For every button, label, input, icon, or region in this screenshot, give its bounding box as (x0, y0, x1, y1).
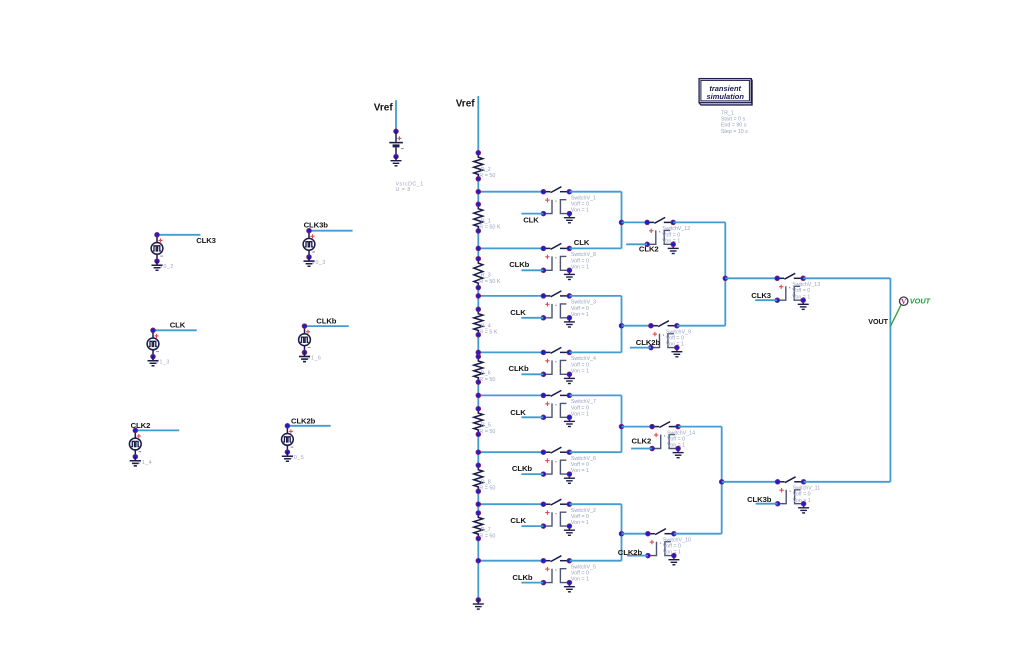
wire stage-2 CLK2b right (677, 325, 725, 327)
svg-text:Start = 0 s: Start = 0 s (721, 117, 746, 123)
svg-text:VOUT: VOUT (868, 317, 888, 326)
ground at V1_6 (299, 352, 310, 361)
wire ladder segment 1 (477, 179, 479, 205)
svg-text:R = 5 K: R = 5 K (479, 330, 498, 336)
svg-text:R = 50: R = 50 (479, 533, 495, 539)
svg-text:SwitchV_7: SwitchV_7 (571, 399, 596, 405)
svg-text:CLKb: CLKb (509, 260, 529, 269)
wire branch 6 left (478, 451, 543, 453)
wire ladder top (477, 96, 479, 153)
svg-text:CLK3: CLK3 (196, 236, 216, 245)
wire Vref source top (395, 100, 397, 131)
svg-text:SwitchV_5: SwitchV_5 (571, 565, 596, 571)
svg-text:R_8: R_8 (481, 479, 491, 485)
svg-text:Von = 1: Von = 1 (571, 208, 589, 214)
voltage probe VOUT (900, 297, 908, 306)
wire branch 1 left (478, 191, 543, 193)
svg-text:CLK: CLK (523, 215, 539, 224)
svg-text:Von = 1: Von = 1 (571, 312, 589, 318)
node stage-1 bus 2 tap (619, 323, 624, 328)
switch SwitchV_8 (CLKb) (541, 243, 596, 279)
pulse source V1_3 (CLK) (147, 328, 170, 366)
switch SwitchV_5 (CLKb) (541, 556, 596, 592)
wire CLKb control 2 (521, 269, 543, 271)
wire CLK2 control (631, 448, 652, 450)
pulse source V1_4 (CLK2) (129, 428, 152, 466)
wire branch 1 right (569, 191, 621, 193)
node stage-2 bus A tap (723, 276, 728, 281)
ground at V0_3 (304, 257, 315, 266)
svg-text:Voff = 0: Voff = 0 (662, 232, 680, 238)
wire CLK2b control (630, 347, 651, 349)
svg-text:Von = 1: Von = 1 (571, 577, 589, 583)
svg-text:Voff = 0: Voff = 0 (571, 514, 589, 520)
wire branch 8 right (569, 560, 621, 562)
svg-text:Voff = 0: Voff = 0 (667, 437, 685, 443)
wire branch 3 right (569, 295, 621, 297)
svg-text:CLK: CLK (574, 238, 590, 247)
svg-text:V: V (901, 298, 906, 306)
svg-text:Voff = 0: Voff = 0 (571, 405, 589, 411)
svg-text:SwitchV_14: SwitchV_14 (667, 430, 695, 436)
svg-text:CLK2b: CLK2b (636, 338, 661, 347)
wire stage-1 bus 4 (621, 504, 623, 561)
wire stage-2 CLK2 left (622, 221, 648, 223)
svg-text:CLK2: CLK2 (639, 245, 659, 254)
switch SwitchV_11 (CLK3b) (775, 477, 820, 513)
svg-text:R = 50 K: R = 50 K (479, 279, 501, 285)
svg-text:R_1: R_1 (481, 218, 491, 224)
svg-text:SwitchV_12: SwitchV_12 (662, 226, 690, 232)
wire stage-2 bus A (724, 222, 726, 325)
wire stage-1 bus 2 (621, 296, 623, 353)
ground at ladder bottom (473, 598, 484, 609)
svg-text:Voff = 0: Voff = 0 (793, 492, 811, 498)
svg-text:Vref: Vref (374, 103, 394, 114)
wire stage-1 bus 3 (621, 395, 623, 452)
svg-text:Voff = 0: Voff = 0 (571, 258, 589, 264)
svg-text:CLK: CLK (170, 320, 186, 329)
svg-text:R_6: R_6 (481, 371, 491, 377)
svg-text:SwitchV_10: SwitchV_10 (663, 538, 691, 544)
wire branch 4 right (569, 351, 621, 353)
svg-text:Voff = 0: Voff = 0 (571, 462, 589, 468)
svg-text:Voff = 0: Voff = 0 (663, 544, 681, 550)
svg-text:Vref: Vref (456, 98, 476, 109)
svg-text:SwitchV_3: SwitchV_3 (571, 300, 596, 306)
wire stage-2 bus B (721, 427, 723, 534)
pulse source V0_2 (CLK3) (151, 233, 174, 271)
wire ladder segment 8 (477, 539, 479, 600)
node branch 2 junction (476, 246, 481, 251)
switch SwitchV_6 (CLKb) (541, 447, 596, 483)
ground at V1_3 (148, 357, 159, 366)
wire CLK3 control (755, 299, 777, 301)
node stage-1 bus 4 tap (619, 531, 624, 536)
switch SwitchV_12 (CLK2) (645, 217, 690, 253)
node branch 3 junction (476, 294, 481, 299)
wire stage-2 CLK2 right (678, 426, 722, 428)
wire branch 8 left (478, 560, 543, 562)
resistor R_4 (R = 5 K) (474, 307, 498, 337)
resistor R_5 (R = 50) (474, 406, 496, 436)
svg-text:R_5: R_5 (481, 423, 491, 429)
svg-text:CLK2: CLK2 (632, 436, 652, 445)
svg-text:Step = 10 s: Step = 10 s (721, 129, 748, 135)
switch SwitchV_10 (CLK2b) (646, 529, 691, 565)
svg-text:CLK: CLK (510, 308, 526, 317)
wire CLK2b control (627, 555, 648, 557)
svg-text:R = 50: R = 50 (479, 429, 495, 435)
wire stage-2 CLK2b left (622, 533, 648, 535)
node branch 7 junction (476, 502, 481, 507)
switch SwitchV_2 (CLK) (541, 499, 596, 535)
svg-text:Voff = 0: Voff = 0 (792, 288, 810, 294)
svg-text:Von = 1: Von = 1 (571, 468, 589, 474)
svg-text:Von = 1: Von = 1 (571, 368, 589, 374)
svg-text:Voff = 0: Voff = 0 (666, 336, 684, 342)
svg-text:CLK3b: CLK3b (304, 220, 329, 229)
transient simulation parameters (721, 111, 748, 135)
wire branch 5 right (569, 394, 621, 396)
svg-text:R = 50 K: R = 50 K (479, 225, 501, 231)
wire CLK3b control (756, 503, 778, 505)
transient simulation TR_1 (699, 79, 752, 106)
switch SwitchV_3 (CLK) (541, 291, 596, 327)
wire CLK control 3 (521, 317, 543, 319)
svg-text:TR_1: TR_1 (721, 111, 734, 117)
node branch 1 junction (476, 189, 481, 194)
svg-text:CLKb: CLKb (316, 317, 336, 326)
wire CLKb control 4 (521, 373, 543, 375)
svg-text:SwitchV_6: SwitchV_6 (571, 456, 596, 462)
wire CLK2b source output (287, 425, 330, 427)
svg-text:VOUT: VOUT (910, 297, 931, 306)
svg-text:R = 50: R = 50 (479, 486, 495, 492)
node stage-2 bus B tap (719, 480, 724, 485)
svg-text:SwitchV_2: SwitchV_2 (571, 508, 596, 514)
wire stage-3 CLK3 left (725, 277, 777, 279)
svg-text:SwitchV_4: SwitchV_4 (571, 356, 596, 362)
node branch 8 junction (476, 558, 481, 563)
wire stage-3 CLK3b right (804, 481, 891, 483)
wire branch 3 left (478, 295, 543, 297)
node Vref source + (394, 129, 399, 134)
svg-text:simulation: simulation (706, 92, 744, 101)
switch SwitchV_14 (CLK2) (650, 422, 695, 458)
svg-text:SwitchV_1: SwitchV_1 (571, 196, 596, 202)
svg-text:R_7: R_7 (481, 527, 491, 533)
switch SwitchV_7 (CLK) (541, 390, 596, 426)
node branch 4 junction (476, 350, 481, 355)
wire stage-3 CLK3 right (803, 277, 890, 279)
svg-text:CLK: CLK (510, 408, 526, 417)
node stage-1 bus 3 tap (619, 424, 624, 429)
wire branch 7 left (478, 503, 543, 505)
resistor R_7 (R = 50) (474, 511, 496, 541)
svg-text:Voff = 0: Voff = 0 (571, 202, 589, 208)
resistor R_1 (R = 50 K) (474, 202, 501, 233)
svg-text:SwitchV_9: SwitchV_9 (666, 330, 691, 336)
wire CLKb control 6 (521, 473, 543, 475)
wire CLK2 control (626, 243, 647, 245)
svg-text:CLKb: CLKb (509, 364, 529, 373)
svg-text:SwitchV_11: SwitchV_11 (793, 486, 821, 492)
node branch 6 junction (476, 450, 481, 455)
svg-text:CLK2b: CLK2b (618, 548, 643, 557)
svg-text:CLK3: CLK3 (751, 291, 771, 300)
wire stage-2 CLK2 right (673, 221, 725, 223)
wire branch 5 left (478, 394, 543, 396)
svg-text:Voff = 0: Voff = 0 (571, 362, 589, 368)
wire ladder segment 2 (477, 231, 479, 259)
voltage source VsrcDC_1 (389, 131, 423, 193)
wire stage-1 bus 1 (621, 192, 623, 249)
svg-text:CLK: CLK (510, 516, 526, 525)
svg-text:CLK3b: CLK3b (747, 495, 772, 504)
svg-text:R_2: R_2 (481, 167, 491, 173)
svg-text:R_4: R_4 (481, 323, 491, 329)
wire stage-2 CLK2b left (622, 325, 651, 327)
wire ladder segment 6 (477, 434, 479, 465)
svg-text:CLKb: CLKb (512, 573, 532, 582)
svg-text:CLKb: CLKb (512, 464, 532, 473)
wire CLK control 5 (521, 416, 543, 418)
svg-text:Von = 1: Von = 1 (571, 264, 589, 270)
svg-text:SwitchV_13: SwitchV_13 (792, 282, 820, 288)
wire ladder segment 4 (477, 335, 479, 357)
svg-text:R_3: R_3 (481, 273, 491, 279)
ground at V0_2 (152, 261, 163, 270)
pulse source V0_5 (CLK2b) (282, 424, 305, 462)
ground at V1_4 (130, 457, 141, 466)
wire ladder segment 7 (477, 491, 479, 513)
wire CLK3b source output (309, 230, 353, 232)
switch SwitchV_13 (CLK3) (775, 273, 820, 309)
resistor R_8 (R = 50) (474, 463, 496, 494)
wire ladder segment 5 (477, 382, 479, 409)
wire branch 2 left (478, 247, 543, 249)
wire output bus (889, 278, 891, 482)
wire CLK control 1 (521, 213, 543, 215)
ground at V0_5 (282, 452, 293, 461)
svg-text:End = 90 s: End = 90 s (721, 123, 747, 129)
wire ladder segment 3 (477, 288, 479, 310)
node branch 5 junction (476, 393, 481, 398)
svg-text:R = 50: R = 50 (479, 377, 495, 383)
resistor R_3 (R = 50 K) (474, 256, 501, 290)
svg-text:U = 8: U = 8 (396, 187, 411, 193)
resistor R_2 (R = 50) (474, 151, 496, 182)
node stage-1 bus 1 tap (619, 220, 624, 225)
wire CLK source output (153, 329, 197, 331)
wire voltage probe VOUT (891, 305, 902, 326)
wire branch 2 right (569, 247, 621, 249)
ground at Vref source (391, 157, 402, 166)
svg-text:CLK2b: CLK2b (291, 416, 316, 425)
switch SwitchV_1 (CLK) (541, 187, 596, 223)
svg-text:Voff = 0: Voff = 0 (571, 571, 589, 577)
wire branch 4 left (478, 351, 543, 353)
svg-text:Voff = 0: Voff = 0 (571, 306, 589, 312)
svg-text:Von = 1: Von = 1 (571, 411, 589, 417)
switch SwitchV_9 (CLK2b) (649, 321, 691, 357)
wire CLKb source output (305, 325, 349, 327)
wire stage-2 CLK2b right (674, 533, 722, 535)
wire stage-2 CLK2 left (622, 426, 653, 428)
pulse source V1_6 (CLKb) (299, 324, 322, 362)
wire branch 6 right (569, 451, 621, 453)
switch SwitchV_4 (CLKb) (541, 347, 596, 383)
svg-text:SwitchV_8: SwitchV_8 (571, 252, 596, 258)
wire CLK3 source output (157, 234, 200, 236)
wire CLK control 7 (521, 525, 543, 527)
svg-text:R = 50: R = 50 (479, 173, 495, 179)
svg-text:Von = 1: Von = 1 (571, 520, 589, 526)
wire stage-3 CLK3b left (722, 481, 778, 483)
wire branch 7 right (569, 503, 621, 505)
resistor R_6 (R = 50) (474, 354, 496, 384)
pulse source V0_3 (CLK3b) (303, 228, 326, 266)
wire CLKb control 8 (521, 582, 543, 584)
wire CLK2 source output (135, 429, 179, 431)
